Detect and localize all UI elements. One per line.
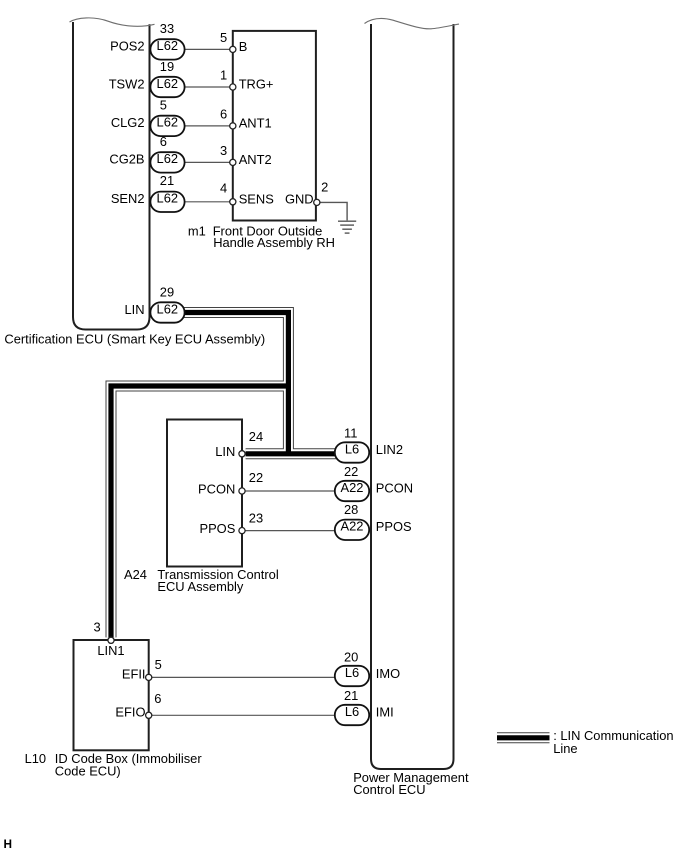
svg-text:5: 5 — [155, 657, 162, 672]
svg-text:PPOS: PPOS — [376, 519, 412, 534]
svg-text:20: 20 — [344, 649, 358, 664]
svg-text:22: 22 — [249, 470, 263, 485]
svg-text:6: 6 — [220, 107, 227, 122]
svg-text:5: 5 — [160, 98, 167, 113]
wire SEN2 to SENS — [184, 201, 231, 203]
pin circle LIN (24) on A24 box — [239, 451, 245, 457]
svg-text:POS2: POS2 — [110, 39, 144, 54]
pin circle PPOS (23) on A24 box — [239, 528, 245, 534]
caption A24 Transmission Control ECU Assembly — [124, 567, 279, 594]
pin circle EFIO (6) on L10 box — [146, 712, 152, 718]
wire CG2B to ANT2 — [184, 161, 231, 163]
component box A24: Transmission Control ECU Assembly — [167, 420, 242, 567]
connector oval L62, pin 29 — [150, 302, 184, 322]
svg-text:EFIO: EFIO — [115, 705, 145, 720]
pin circle LIN1 (3) on L10 box — [108, 637, 114, 643]
LIN wire white gap layers — [182, 313, 288, 454]
connector oval L62, pin 21 — [150, 192, 184, 212]
svg-text:L62: L62 — [157, 76, 179, 91]
torn-edge wavy top of Power Management Control ECU box — [365, 18, 460, 28]
svg-text:ECU Assembly: ECU Assembly — [157, 579, 244, 594]
svg-text:m1: m1 — [188, 224, 206, 239]
svg-text:A24: A24 — [124, 567, 147, 582]
svg-text:B: B — [239, 39, 248, 54]
svg-text:L6: L6 — [345, 704, 359, 719]
svg-text:4: 4 — [220, 181, 227, 196]
wire PPOS (A24 pin 23) to PPOS (A22 pin 28) — [242, 530, 336, 532]
svg-text:PCON: PCON — [376, 480, 413, 495]
svg-text:GND: GND — [285, 192, 314, 207]
svg-text:L10: L10 — [25, 751, 47, 766]
svg-text:1: 1 — [220, 67, 227, 82]
wire EFIO (L10 pin 6) to IMI (L6 pin 21) — [149, 714, 336, 716]
legend text: LIN Communication Line — [553, 728, 673, 756]
svg-text:PCON: PCON — [198, 481, 235, 496]
svg-text:22: 22 — [344, 464, 358, 479]
svg-text:L6: L6 — [345, 665, 359, 680]
pin circle GND on m1 box — [314, 199, 320, 205]
svg-text:LIN2: LIN2 — [376, 442, 403, 457]
ECU box: Power Management Control ECU, partial with torn top — [365, 18, 460, 769]
svg-text:23: 23 — [249, 510, 263, 525]
component box m1: Front Door Outside Handle Assembly RH — [233, 31, 316, 221]
LIN communication wire: A24 LIN pin 24 to L6 LIN2 pin 11 (outline layer) — [246, 448, 337, 459]
svg-text:L6: L6 — [345, 441, 359, 456]
pin circle EFII (5) on L10 box — [146, 674, 152, 680]
svg-text:IMO: IMO — [376, 666, 400, 681]
svg-text:33: 33 — [160, 21, 174, 36]
wire GND pin 2 to ground — [319, 202, 348, 220]
svg-text:11: 11 — [344, 425, 357, 440]
svg-text:28: 28 — [344, 502, 358, 517]
wire CLG2 to ANT1 — [184, 125, 231, 127]
svg-text:EFII: EFII — [122, 667, 146, 682]
pin circle TRG+ on m1 box — [230, 84, 236, 90]
ECU box: Certification ECU (Smart Key ECU Assembly), partial with torn top — [70, 18, 155, 330]
svg-text:L62: L62 — [157, 151, 179, 166]
component box L10: ID Code Box (Immobiliser Code ECU) — [74, 640, 149, 750]
LIN communication wire branch: junction left then down to LIN1 (outline layer) — [111, 386, 288, 637]
LIN communication wire: L62 pin 29 right then down to LIN2 row (outline layer) — [182, 313, 288, 454]
pin circle SENS on m1 box — [230, 199, 236, 205]
svg-text:6: 6 — [154, 691, 161, 706]
connector oval L6, pin 11 — [335, 442, 369, 462]
wire TSW2 to TRG+ — [184, 86, 231, 88]
svg-text:L62: L62 — [157, 301, 179, 316]
svg-text:L62: L62 — [157, 115, 179, 130]
connector oval L62, pin 6 — [150, 152, 184, 172]
svg-text:ANT1: ANT1 — [239, 116, 272, 131]
pin circle B on m1 box — [230, 46, 236, 52]
svg-text:SEN2: SEN2 — [111, 191, 145, 206]
svg-text:H: H — [4, 837, 13, 851]
svg-text:Control ECU: Control ECU — [353, 782, 425, 797]
svg-text:PPOS: PPOS — [199, 521, 235, 536]
svg-text:29: 29 — [160, 284, 174, 299]
svg-text:A22: A22 — [341, 519, 364, 534]
svg-text:SENS: SENS — [239, 191, 274, 206]
svg-text:LIN: LIN — [124, 302, 144, 317]
svg-text:2: 2 — [321, 179, 328, 194]
svg-text:CG2B: CG2B — [109, 152, 144, 167]
svg-text:TRG+: TRG+ — [239, 77, 274, 92]
svg-text:5: 5 — [220, 30, 227, 45]
pin circle PCON (22) on A24 box — [239, 488, 245, 494]
wire EFII (L10 pin 5) to IMO (L6 pin 20) — [149, 676, 336, 678]
connector oval A22, pin 28 — [335, 520, 369, 540]
svg-text:ANT2: ANT2 — [239, 152, 272, 167]
LIN wire black core layers — [182, 313, 288, 454]
connector oval L6, pin 21 — [335, 705, 369, 725]
svg-text:LIN: LIN — [215, 444, 235, 459]
svg-text:3: 3 — [220, 143, 227, 158]
svg-text:3: 3 — [94, 620, 101, 635]
svg-text:24: 24 — [249, 429, 263, 444]
svg-text:LIN1: LIN1 — [97, 643, 124, 658]
wire POS2 to B — [184, 48, 231, 50]
ground — [338, 221, 356, 233]
svg-text:21: 21 — [160, 173, 174, 188]
svg-text:A22: A22 — [341, 480, 364, 495]
connector oval L6, pin 20 — [335, 666, 369, 686]
svg-text:TSW2: TSW2 — [109, 76, 145, 91]
svg-text:21: 21 — [344, 688, 358, 703]
torn-edge wavy top of Certification ECU box — [70, 18, 155, 26]
svg-text:Code ECU): Code ECU) — [55, 764, 121, 779]
pin circle ANT2 on m1 box — [230, 159, 236, 165]
svg-text:CLG2: CLG2 — [111, 115, 145, 130]
svg-text:Handle Assembly RH: Handle Assembly RH — [213, 235, 335, 250]
caption L10 ID Code Box (Immobiliser Code ECU) — [25, 751, 203, 779]
caption m1 Front Door Outside Handle Assembly RH — [188, 224, 335, 250]
connector oval L62, pin 19 — [150, 77, 184, 97]
connector oval L62, pin 5 — [150, 116, 184, 136]
wire PCON (A24 pin 22) to PCON (A22 pin 22) — [242, 490, 336, 492]
legend LIN communication line sample (outline layer) — [497, 732, 550, 743]
svg-text:19: 19 — [160, 59, 174, 74]
svg-text:L62: L62 — [157, 38, 179, 53]
connector oval L62, pin 33 — [150, 39, 184, 59]
svg-text:Certification ECU (Smart Key E: Certification ECU (Smart Key ECU Assembl… — [4, 331, 265, 346]
svg-text:Line: Line — [553, 741, 577, 756]
svg-text:6: 6 — [160, 134, 167, 149]
connector oval A22, pin 22 — [335, 481, 369, 501]
pin circle ANT1 on m1 box — [230, 123, 236, 129]
caption Power Management Control ECU — [353, 770, 469, 797]
svg-text:L62: L62 — [157, 191, 179, 206]
svg-text:IMI: IMI — [376, 705, 394, 720]
